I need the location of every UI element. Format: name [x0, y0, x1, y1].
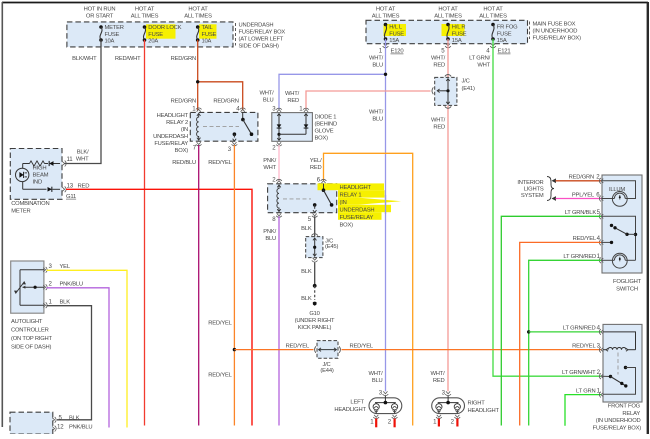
- relay 1 pin 5: [308, 214, 318, 223]
- relay 1 pin 2: [272, 177, 282, 184]
- diode 1 internal right branch (pin 1): [279, 114, 308, 135]
- junction: WHT/BLU branch node: [384, 73, 387, 76]
- fuse feed stubs: [101, 20, 493, 27]
- svg-text:(UNDER RIGHT: (UNDER RIGHT: [295, 318, 335, 324]
- svg-text:RED/YEL: RED/YEL: [573, 236, 597, 242]
- diode 1 pin 1: [299, 105, 309, 112]
- wire WHT/RED (J/C E41 to diode 1 pin 1): [285, 91, 431, 109]
- svg-text:METER: METER: [105, 25, 124, 31]
- svg-text:HIGH: HIGH: [33, 165, 47, 171]
- junction connector J/C (E41): [432, 75, 475, 109]
- wire LT GRN/BLK (foglight switch pin 5, runs off bottom): [501, 216, 601, 425]
- wire PNK/WHT (diode 1 pin 2 to headlight relay 1 pin 2): [263, 145, 279, 180]
- wire RED/GRN (foglight switch pin 2 to interior lights system): [552, 174, 602, 184]
- svg-text:(IN UNDERHOOD: (IN UNDERHOOD: [596, 418, 641, 424]
- svg-text:PNK/: PNK/: [263, 229, 276, 235]
- svg-text:LT GRN/BLK: LT GRN/BLK: [565, 210, 597, 216]
- svg-text:FUSE: FUSE: [202, 32, 217, 38]
- wire RED/WHT (door lock fuse, runs off bottom of page): [115, 40, 145, 426]
- svg-text:BLK: BLK: [301, 226, 312, 232]
- wire LT GRN/WHT (FR FOG fuse to front fog relay pin 2): [469, 39, 601, 376]
- svg-text:FUSE: FUSE: [497, 31, 512, 37]
- svg-text:BLU: BLU: [372, 378, 383, 384]
- svg-text:WHT/: WHT/: [431, 56, 446, 62]
- svg-text:PPL/YEL: PPL/YEL: [572, 192, 595, 198]
- svg-text:WHT/: WHT/: [368, 371, 383, 377]
- relay 1 pin 6: [317, 177, 327, 184]
- foglight switch pin 5: [565, 209, 604, 219]
- svg-text:HEADLIGHT: HEADLIGHT: [340, 185, 372, 191]
- svg-text:METER: METER: [11, 209, 30, 215]
- svg-text:RELAY: RELAY: [622, 411, 640, 417]
- junction: LT GRN/RED branch node: [527, 330, 530, 333]
- wire RED/YEL (foglight switch pin 4, runs off bottom): [520, 242, 601, 425]
- foglight switch pin 4: [573, 235, 604, 245]
- svg-text:(AT LOWER LEFT: (AT LOWER LEFT: [239, 37, 284, 43]
- combination meter (dashed box): [10, 149, 62, 215]
- wire RED stubs (left headlight pins 1,2): [376, 419, 394, 428]
- svg-text:BEAM: BEAM: [33, 172, 49, 178]
- foglight switch fog indicator bulb (pin 1): [602, 253, 636, 268]
- svg-text:AUTOLIGHT: AUTOLIGHT: [11, 319, 43, 325]
- svg-text:UNDERDASH: UNDERDASH: [340, 207, 375, 213]
- svg-text:RED: RED: [433, 63, 445, 69]
- svg-text:J/C: J/C: [462, 79, 470, 85]
- svg-text:E120: E120: [391, 49, 405, 55]
- svg-text:G10: G10: [309, 311, 319, 317]
- svg-text:BLK: BLK: [69, 416, 80, 422]
- svg-text:FUSE/RELAY BOX): FUSE/RELAY BOX): [593, 425, 642, 431]
- foglight switch contacts (pins 5-4): [602, 216, 637, 260]
- svg-text:SIDE OF DASH): SIDE OF DASH): [11, 345, 52, 351]
- relay 1 switch contacts (pins 6-5): [283, 184, 333, 213]
- connector pin 5 (H/L R fuse output): [441, 44, 451, 55]
- wire PPL/YEL (foglight switch pin 6 to interior lights system): [552, 191, 602, 201]
- svg-text:BLK: BLK: [301, 296, 312, 302]
- relay 1 name label: [340, 185, 375, 229]
- svg-text:FUSE: FUSE: [148, 32, 163, 38]
- foglight switch illumination bulb ILLUM: [602, 181, 636, 207]
- wire BLK (autolight pin 1 to underdash module pin 5): [47, 306, 92, 420]
- fuse: H/L L FUSE 15A: [384, 23, 405, 44]
- svg-text:HOT AT: HOT AT: [188, 7, 208, 13]
- svg-text:11: 11: [67, 156, 74, 163]
- svg-text:15A: 15A: [497, 38, 507, 44]
- svg-text:ALL TIMES: ALL TIMES: [434, 14, 462, 20]
- wire LT GRN/RED (branch to front fog relay pin 4): [529, 331, 601, 333]
- autolight controller pin 1: [43, 298, 70, 308]
- svg-text:BLU: BLU: [372, 63, 383, 69]
- svg-text:LT GRN: LT GRN: [576, 388, 596, 394]
- diode 1 pin 3: [272, 105, 282, 112]
- wire RED stubs (right headlight pins 1,2): [439, 419, 458, 427]
- junction: RED/GRN branch node: [196, 80, 199, 83]
- svg-text:WHT/: WHT/: [369, 56, 384, 62]
- connector below J/C E45: [313, 258, 317, 260]
- wire WHT/BLU (H/L L fuse to diode 1 pin 3 and left headlight pin 3): [279, 39, 386, 391]
- relay 2 switch contacts (pins 4-3): [203, 112, 253, 141]
- svg-text:15A: 15A: [452, 38, 462, 44]
- svg-text:HOT AT: HOT AT: [135, 7, 155, 13]
- svg-text:DIODE 1: DIODE 1: [315, 114, 337, 120]
- svg-text:YEL: YEL: [60, 264, 71, 270]
- svg-text:ALL TIMES: ALL TIMES: [184, 14, 212, 20]
- svg-text:LT GRN/RED: LT GRN/RED: [563, 254, 596, 260]
- svg-text:PNK/: PNK/: [263, 158, 276, 164]
- fuse: METER FUSE 10A: [99, 25, 124, 44]
- svg-text:RED/YEL: RED/YEL: [208, 372, 232, 378]
- relay 2 pin 4: [236, 105, 245, 112]
- relay 1 coil (pins 2-8): [277, 185, 281, 212]
- wire LT GRN/RED (foglight switch pin 1 to front fog relay pin 4 and off bottom): [529, 260, 601, 425]
- autolight controller pin 3: [43, 263, 71, 273]
- svg-text:HEADLIGHT: HEADLIGHT: [468, 408, 500, 414]
- wire BLK (dashed stub to G10): [301, 286, 315, 302]
- svg-text:FUSE: FUSE: [389, 31, 404, 37]
- relay 2 pin 1: [192, 105, 201, 112]
- fuse: TAIL FUSE 10A: [196, 25, 217, 44]
- wire RED/YEL (relay 2 pin 3 branch to J/C E44): [234, 344, 313, 350]
- svg-text:BOX): BOX): [315, 135, 329, 141]
- svg-text:FUSE/RELAY BOX: FUSE/RELAY BOX: [239, 30, 286, 36]
- svg-text:WHT/: WHT/: [431, 118, 446, 124]
- svg-text:BLU: BLU: [263, 98, 274, 104]
- wire BLK (relay 1 pin 5 to J/C E45): [301, 216, 315, 237]
- svg-text:HOT IN RUN: HOT IN RUN: [84, 7, 116, 13]
- svg-text:(IN: (IN: [181, 127, 188, 133]
- svg-text:RED/GRN: RED/GRN: [171, 99, 196, 105]
- svg-text:RED: RED: [287, 98, 299, 104]
- foglight switch pin 2: [601, 179, 603, 183]
- svg-text:12: 12: [57, 423, 64, 430]
- svg-text:RED: RED: [433, 378, 445, 384]
- wire label WHT/BLU (diode 1 pin 3): [259, 91, 274, 104]
- svg-text:13: 13: [67, 182, 74, 189]
- svg-text:H/L R: H/L R: [452, 25, 466, 31]
- svg-text:FOGLIGHT: FOGLIGHT: [613, 279, 642, 285]
- power label: HOT AT ALL TIMES (H/L L fuse): [372, 7, 400, 20]
- svg-text:HOT AT: HOT AT: [438, 7, 458, 13]
- diode assembly: DIODE 1 (BEHIND GLOVE BOX): [272, 113, 337, 142]
- svg-text:HOT AT: HOT AT: [483, 7, 503, 13]
- foglight switch pin 6: [601, 196, 603, 200]
- autolight light sensor: [14, 270, 44, 305]
- svg-text:PNK/BLU: PNK/BLU: [60, 281, 83, 287]
- svg-text:FUSE/RELAY: FUSE/RELAY: [154, 141, 188, 147]
- svg-text:PNK/BLU: PNK/BLU: [69, 424, 92, 430]
- wire (lamp to pin 13 internal): [23, 182, 47, 190]
- svg-text:RELAY 1: RELAY 1: [340, 192, 362, 198]
- wire YEL/RED (headlight relay 1 pin 6 feed, runs off bottom at right): [310, 153, 413, 425]
- svg-text:E121: E121: [498, 49, 511, 55]
- svg-text:RIGHT: RIGHT: [468, 400, 486, 406]
- svg-text:RED/YEL: RED/YEL: [208, 160, 232, 166]
- svg-text:BLK: BLK: [60, 299, 71, 305]
- wire RED (combination meter pin 13 G11 feed, runs off bottom): [66, 189, 252, 425]
- svg-text:RED: RED: [310, 165, 322, 171]
- svg-text:10A: 10A: [202, 38, 212, 44]
- front fog relay pin 4: [563, 325, 603, 335]
- svg-text:(E45): (E45): [325, 244, 338, 250]
- svg-text:ALL TIMES: ALL TIMES: [479, 14, 507, 20]
- wire BLK/WHT (meter fuse to combination meter pin 11): [64, 40, 101, 164]
- junction: BLK node above G10: [313, 284, 317, 288]
- svg-text:RED: RED: [433, 125, 445, 131]
- lamp: RIGHT HEADLIGHT: [432, 390, 500, 426]
- svg-text:FUSE/RELAY BOX): FUSE/RELAY BOX): [533, 36, 582, 42]
- svg-text:RED: RED: [78, 183, 90, 189]
- underdash fuse/relay box: [67, 22, 286, 50]
- svg-text:INTERIOR: INTERIOR: [517, 180, 543, 186]
- svg-text:FUSE: FUSE: [105, 32, 120, 38]
- highlight: HEADLIGHT RELAY 1 label: [318, 183, 402, 219]
- diode (combination meter pin 13 side): [48, 187, 61, 192]
- svg-text:WHT/: WHT/: [369, 110, 384, 116]
- svg-text:LEFT: LEFT: [350, 399, 364, 405]
- svg-text:RED/YEL: RED/YEL: [286, 344, 310, 350]
- svg-text:LT GRN/: LT GRN/: [469, 56, 491, 62]
- svg-text:(IN UNDERHOOD: (IN UNDERHOOD: [533, 29, 578, 35]
- svg-text:DOOR LOCK: DOOR LOCK: [148, 25, 181, 31]
- front fog relay pin 3: [572, 343, 603, 353]
- wire LT GRN (front fog relay pin 1, runs off bottom): [565, 395, 601, 426]
- svg-text:COMBINATION: COMBINATION: [11, 201, 49, 207]
- svg-text:BLU: BLU: [372, 117, 383, 123]
- svg-text:FRONT FOG: FRONT FOG: [608, 403, 641, 409]
- wire WHT/RED (H/L R fuse to J/C E41 and right headlight pin 3): [430, 39, 448, 391]
- svg-text:UNDERDASH: UNDERDASH: [153, 134, 188, 140]
- svg-text:RED/WHT: RED/WHT: [115, 56, 141, 62]
- svg-text:OR START: OR START: [86, 14, 114, 20]
- svg-text:HEADLIGHT: HEADLIGHT: [157, 113, 189, 119]
- highlight: H/L L FUSE: [384, 24, 407, 36]
- wire RED/YEL (relay 2 pin 3 down to J/C E44 run and off bottom): [208, 145, 234, 426]
- svg-text:YEL/: YEL/: [310, 158, 322, 164]
- highlight: TAIL FUSE: [199, 24, 217, 38]
- junction connector J/C (E44): [315, 341, 341, 374]
- svg-text:LT GRN/WHT: LT GRN/WHT: [562, 370, 596, 376]
- power label: HOT AT ALL TIMES (H/L R fuse): [434, 7, 462, 20]
- svg-text:BLK/: BLK/: [77, 150, 89, 156]
- off-page: INTERIOR LIGHTS SYSTEM: [517, 177, 554, 201]
- relay 2 coil (pins 1-7): [197, 114, 201, 141]
- svg-text:ALL TIMES: ALL TIMES: [131, 14, 159, 20]
- power label: HOT AT ALL TIMES (FR FOG fuse): [479, 7, 507, 20]
- connector E121 pin 4: [486, 44, 510, 55]
- autolight controller pin 2: [43, 280, 83, 290]
- power label: HOT AT ALL TIMES (tail fuse): [184, 7, 212, 20]
- diode 1 pin 2: [272, 142, 282, 151]
- svg-text:BOX): BOX): [175, 148, 189, 154]
- svg-text:UNDERDASH: UNDERDASH: [239, 23, 274, 29]
- wire PNK/BLU (relay 1 pin 8, runs off bottom): [263, 216, 279, 425]
- svg-text:FUSE/RELAY: FUSE/RELAY: [340, 215, 374, 221]
- svg-text:(BEHIND: (BEHIND: [315, 121, 337, 127]
- foglight switch pin 1: [563, 253, 603, 263]
- svg-text:WHT/: WHT/: [430, 371, 445, 377]
- front fog relay pin 2: [562, 369, 603, 379]
- svg-text:SIDE OF DASH): SIDE OF DASH): [239, 44, 280, 50]
- junction: RED/YEL branch node: [233, 348, 236, 351]
- svg-text:WHT/: WHT/: [285, 91, 300, 97]
- relay 2 pin 3: [228, 142, 238, 153]
- svg-text:RED/YEL: RED/YEL: [208, 321, 232, 327]
- svg-text:BLU: BLU: [265, 236, 276, 242]
- svg-text:RED/YEL: RED/YEL: [350, 344, 374, 350]
- svg-text:SWITCH: SWITCH: [616, 287, 638, 293]
- svg-text:H/L L: H/L L: [389, 25, 403, 31]
- svg-text:HEADLIGHT: HEADLIGHT: [334, 407, 366, 413]
- svg-text:KICK PANEL): KICK PANEL): [298, 325, 332, 331]
- wire YEL (autolight pin 3, runs off bottom): [47, 270, 128, 427]
- svg-text:MAIN FUSE BOX: MAIN FUSE BOX: [533, 22, 576, 28]
- relay 2 pin 7: [193, 142, 202, 151]
- svg-text:IND: IND: [33, 179, 43, 185]
- ground G10 (UNDER RIGHT KICK PANEL): [295, 302, 335, 332]
- svg-text:20A: 20A: [148, 38, 158, 44]
- svg-text:RELAY 2: RELAY 2: [166, 120, 188, 126]
- svg-text:GLOVE: GLOVE: [315, 128, 334, 134]
- svg-text:SYSTEM: SYSTEM: [521, 193, 544, 199]
- fuse: DOOR LOCK FUSE 20A: [143, 25, 182, 44]
- svg-text:LIGHTS: LIGHTS: [524, 187, 544, 193]
- svg-text:LT GRN/RED: LT GRN/RED: [563, 326, 596, 332]
- svg-text:10A: 10A: [105, 38, 115, 44]
- svg-text:(ON TOP RIGHT: (ON TOP RIGHT: [11, 336, 53, 342]
- connector E120 pin 1: [379, 44, 405, 55]
- svg-text:HOT AT: HOT AT: [376, 7, 396, 13]
- junction connector J/C (E45): [306, 234, 339, 258]
- power label: HOT AT ALL TIMES (door lock fuse): [131, 7, 159, 20]
- svg-text:RED/BLU: RED/BLU: [172, 160, 196, 166]
- relay: HEADLIGHT RELAY 1 (dashed box): [268, 184, 337, 213]
- main fuse box (in underhood fuse/relay box): [366, 20, 581, 43]
- highlight: H/L R FUSE: [442, 24, 465, 36]
- svg-text:WHT: WHT: [76, 157, 89, 163]
- svg-text:RED/YEL: RED/YEL: [572, 344, 596, 350]
- wire RED/GRN (tail fuse to headlight relay 2 pins 1 and 4): [171, 40, 243, 110]
- svg-text:BOX): BOX): [340, 222, 354, 228]
- front fog relay switch contacts (pins 2-1): [602, 366, 636, 395]
- svg-text:FUSE: FUSE: [452, 31, 467, 37]
- relay 1 pin 8: [272, 214, 282, 223]
- module (bottom left, dashed box) pins 5 / 12: [10, 412, 92, 434]
- wire RED/YEL (J/C E44 to front fog relay pin 3): [342, 344, 602, 350]
- svg-text:WHT: WHT: [263, 165, 276, 171]
- svg-text:TAIL: TAIL: [202, 25, 214, 31]
- wire PNK/BLU (autolight pin 2, runs off bottom): [47, 288, 110, 428]
- power label: HOT IN RUN OR START: [84, 7, 116, 20]
- switch: FOGLIGHT SWITCH: [602, 175, 642, 293]
- svg-text:FR FOG: FR FOG: [497, 25, 518, 31]
- front fog relay coil (pins 4-3): [603, 332, 636, 375]
- high beam indicator lamp: [16, 165, 49, 185]
- resistor (high beam ind feed): [23, 161, 48, 168]
- autolight controller (solid box): [11, 261, 53, 351]
- front fog relay pin 1: [576, 387, 603, 397]
- pin 13 / G11 (combination meter): [62, 182, 89, 200]
- svg-text:ALL TIMES: ALL TIMES: [372, 14, 400, 20]
- svg-text:(IN: (IN: [340, 200, 347, 206]
- lamp: LEFT HEADLIGHT: [334, 390, 401, 426]
- svg-text:RED/GRN: RED/GRN: [213, 99, 238, 105]
- svg-text:(E44): (E44): [320, 368, 333, 374]
- svg-text:BLK/WHT: BLK/WHT: [72, 56, 97, 62]
- svg-text:RED/GRN: RED/GRN: [569, 175, 594, 181]
- wire WHT/BLU (segment redrawn over highlight): [385, 195, 387, 214]
- fuse: H/L R FUSE 15A: [446, 23, 467, 44]
- svg-text:BLK: BLK: [301, 269, 312, 275]
- relay: HEADLIGHT RELAY 2 (dashed box): [153, 112, 258, 154]
- svg-text:WHT/: WHT/: [259, 91, 274, 97]
- svg-text:WHT: WHT: [477, 63, 490, 69]
- fuse: FR FOG FUSE 15A: [491, 23, 518, 44]
- diode 1 internal left branch (pin 3 to pin 2): [277, 114, 282, 141]
- relay: FRONT FOG RELAY (solid box): [593, 324, 642, 431]
- svg-text:15A: 15A: [389, 38, 399, 44]
- svg-text:CONTROLLER: CONTROLLER: [11, 328, 49, 334]
- wire BLK (J/C E45 to ground G10): [301, 263, 315, 286]
- svg-text:RED/GRN: RED/GRN: [171, 56, 196, 62]
- diode (combination meter pin 11 side): [49, 161, 60, 166]
- pin 11 (combination meter): [62, 156, 73, 166]
- svg-text:(E41): (E41): [462, 86, 475, 92]
- wire RED/BLU (relay 2 pin 7, runs off bottom): [172, 145, 198, 426]
- svg-text:G11: G11: [66, 194, 76, 200]
- highlight: DOOR LOCK FUSE: [146, 24, 176, 38]
